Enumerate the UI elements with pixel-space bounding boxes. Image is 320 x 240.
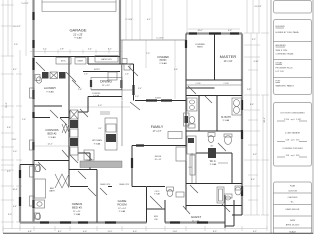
svg-text:3'-0": 3'-0" — [8, 214, 12, 216]
svg-text:5'-4": 5'-4" — [88, 49, 92, 51]
svg-text:5'-1": 5'-1" — [43, 49, 47, 51]
svg-text:2,254 sq ft 2,447: 2,254 sq ft 2,447 — [284, 118, 302, 121]
svg-text:9'-0": 9'-0" — [98, 128, 102, 130]
svg-text:8'-1": 8'-1" — [108, 49, 112, 51]
svg-text:BED #3: BED #3 — [72, 206, 82, 210]
svg-text:12' x 14': 12' x 14' — [118, 208, 127, 210]
svg-text:MASTER: MASTER — [220, 54, 237, 59]
svg-text:MUD: MUD — [154, 216, 159, 218]
svg-text:CUSTOM: CUSTOM — [288, 191, 297, 193]
svg-text:5'-1 3/4": 5'-1 3/4" — [156, 38, 164, 40]
svg-text:11' x 12': 11' x 12' — [102, 85, 110, 87]
svg-text:3'-6": 3'-6" — [7, 127, 11, 129]
svg-text:2'-8": 2'-8" — [60, 49, 64, 51]
svg-text:GUEST: GUEST — [191, 215, 202, 219]
svg-text:9' SLAB: 9' SLAB — [46, 91, 54, 94]
svg-text:34'-1": 34'-1" — [264, 117, 266, 123]
svg-text:17' x 17': 17' x 17' — [153, 130, 162, 133]
svg-text:3'-2": 3'-2" — [252, 39, 256, 41]
svg-text:6'-4": 6'-4" — [13, 206, 17, 208]
svg-text:FOR:: FOR: — [276, 81, 281, 83]
svg-text:KITCHEN: KITCHEN — [92, 140, 102, 142]
svg-text:BATH: BATH — [50, 190, 56, 193]
svg-text:B.L.: B.L. — [291, 202, 295, 204]
svg-text:1'-6": 1'-6" — [125, 74, 129, 76]
svg-text:9' SLAB: 9' SLAB — [93, 94, 100, 97]
svg-text:ROOM: ROOM — [117, 203, 127, 207]
svg-text:14' x 16': 14' x 16' — [224, 60, 233, 63]
svg-text:9' SLAB: 9' SLAB — [74, 37, 82, 40]
svg-text:2 CAR GARAGE: 2 CAR GARAGE — [285, 132, 301, 135]
svg-text:ADDRESS:: ADDRESS: — [276, 44, 287, 47]
svg-text:9' SLAB: 9' SLAB — [119, 210, 126, 213]
svg-text:6'-2": 6'-2" — [253, 154, 257, 156]
svg-text:8'-0": 8'-0" — [251, 179, 255, 181]
svg-text:2'-0": 2'-0" — [14, 44, 18, 46]
svg-text:BED #2: BED #2 — [48, 132, 57, 136]
svg-text:PLAN: PLAN — [290, 185, 296, 188]
svg-text:LAUNDRY: LAUNDRY — [44, 86, 57, 90]
svg-text:CASED OPN: CASED OPN — [100, 183, 111, 186]
svg-text:CLOS: CLOS — [196, 83, 202, 85]
svg-text:LOT 103: LOT 103 — [276, 71, 285, 73]
svg-text:DAVID MILLER: DAVID MILLER — [286, 208, 300, 211]
svg-text:DATE: DATE — [290, 219, 296, 222]
svg-text:SLIDER: SLIDER — [155, 98, 162, 100]
svg-text:9' SLAB: 9' SLAB — [94, 143, 101, 146]
svg-text:9' SLAB: 9' SLAB — [223, 119, 230, 122]
svg-text:OUTD: OUTD — [155, 191, 161, 193]
svg-text:9' SLAB: 9' SLAB — [159, 62, 167, 65]
svg-text:9' SLAB: 9' SLAB — [210, 163, 217, 166]
svg-text:7'-0": 7'-0" — [146, 53, 150, 55]
svg-text:FRONTIER HILLS: FRONTIER HILLS — [276, 68, 294, 70]
svg-text:W.I.C.: W.I.C. — [210, 160, 217, 163]
svg-text:CASED OPN: CASED OPN — [119, 183, 130, 186]
svg-text:FAMILY: FAMILY — [151, 125, 164, 129]
svg-text:GARAGE: GARAGE — [69, 28, 86, 33]
svg-text:2'-0": 2'-0" — [135, 96, 139, 98]
svg-text:HOMES BY JOEL PAIVA: HOMES BY JOEL PAIVA — [276, 31, 300, 34]
svg-text:3'-4": 3'-4" — [138, 88, 142, 90]
svg-text:RM: RM — [155, 219, 158, 221]
svg-text:1ST STORY LIVING/DINING: 1ST STORY LIVING/DINING — [280, 113, 305, 115]
svg-text:CHASE: CHASE — [77, 60, 84, 63]
svg-text:WARDERO FAMILY: WARDERO FAMILY — [276, 85, 295, 88]
svg-text:CORRIVAL TEXAS: CORRIVAL TEXAS — [276, 53, 294, 56]
svg-text:12'-2": 12'-2" — [47, 144, 52, 146]
svg-text:9'-1 3/4": 9'-1 3/4" — [125, 19, 133, 21]
svg-text:8'-1": 8'-1" — [13, 69, 17, 71]
svg-text:11'-0": 11'-0" — [12, 139, 17, 141]
svg-text:COVERED PORCHES: COVERED PORCHES — [282, 148, 303, 150]
svg-text:11' x 11': 11' x 11' — [192, 221, 200, 223]
svg-text:BUILDER:: BUILDER: — [276, 26, 286, 28]
svg-text:9'-2": 9'-2" — [7, 171, 11, 173]
svg-text:2'-8": 2'-8" — [78, 89, 82, 91]
svg-text:5'-0": 5'-0" — [13, 151, 17, 153]
svg-text:2'-8": 2'-8" — [247, 89, 251, 91]
svg-text:2'-4 1/2": 2'-4 1/2" — [21, 3, 29, 5]
svg-text:CONNORS: CONNORS — [45, 128, 59, 132]
svg-text:APRIL 08,2019: APRIL 08,2019 — [286, 224, 300, 227]
svg-text:9'-0": 9'-0" — [98, 105, 102, 107]
svg-text:ENTRY: ENTRY — [94, 69, 101, 71]
svg-text:8'-6": 8'-6" — [250, 104, 254, 106]
svg-text:PATIO: PATIO — [160, 59, 167, 62]
svg-text:1'-6": 1'-6" — [84, 74, 88, 76]
svg-text:WATER HTR: WATER HTR — [101, 58, 112, 61]
svg-text:316 sq ft 356: 316 sq ft 356 — [286, 154, 301, 157]
svg-text:LEGAL:: LEGAL: — [276, 62, 284, 65]
svg-text:4'-1": 4'-1" — [147, 19, 151, 21]
svg-text:1'-6": 1'-6" — [22, 119, 26, 121]
svg-text:14'-0": 14'-0" — [197, 30, 202, 32]
svg-text:PATIO: PATIO — [197, 46, 203, 49]
svg-text:21' x 23': 21' x 23' — [73, 33, 83, 37]
svg-text:DINING: DINING — [100, 80, 112, 84]
svg-text:M. BATH: M. BATH — [221, 116, 231, 119]
svg-text:ATTIC: ATTIC — [61, 60, 67, 63]
svg-text:10'-4": 10'-4" — [12, 189, 17, 191]
svg-text:51'-0": 51'-0" — [6, 102, 8, 108]
svg-text:10' x 12': 10' x 12' — [155, 159, 163, 161]
svg-text:5886 S 1234: 5886 S 1234 — [276, 50, 289, 52]
svg-text:4'-6": 4'-6" — [174, 69, 178, 71]
svg-text:11' x 11': 11' x 11' — [73, 211, 81, 213]
svg-text:4'-9 1/2": 4'-9 1/2" — [254, 6, 262, 8]
svg-text:4'-0 1/2": 4'-0 1/2" — [13, 26, 21, 28]
svg-text:CHECKED: CHECKED — [288, 197, 298, 199]
svg-text:CLOS: CLOS — [224, 83, 230, 85]
svg-text:NOOK: NOOK — [155, 156, 162, 158]
svg-text:4'-10": 4'-10" — [253, 61, 258, 63]
svg-text:9' SLAB: 9' SLAB — [48, 136, 56, 139]
svg-text:518 sq ft 574: 518 sq ft 574 — [286, 139, 301, 142]
svg-text:9' SLAB: 9' SLAB — [74, 213, 81, 216]
svg-text:6'-0": 6'-0" — [228, 30, 232, 32]
